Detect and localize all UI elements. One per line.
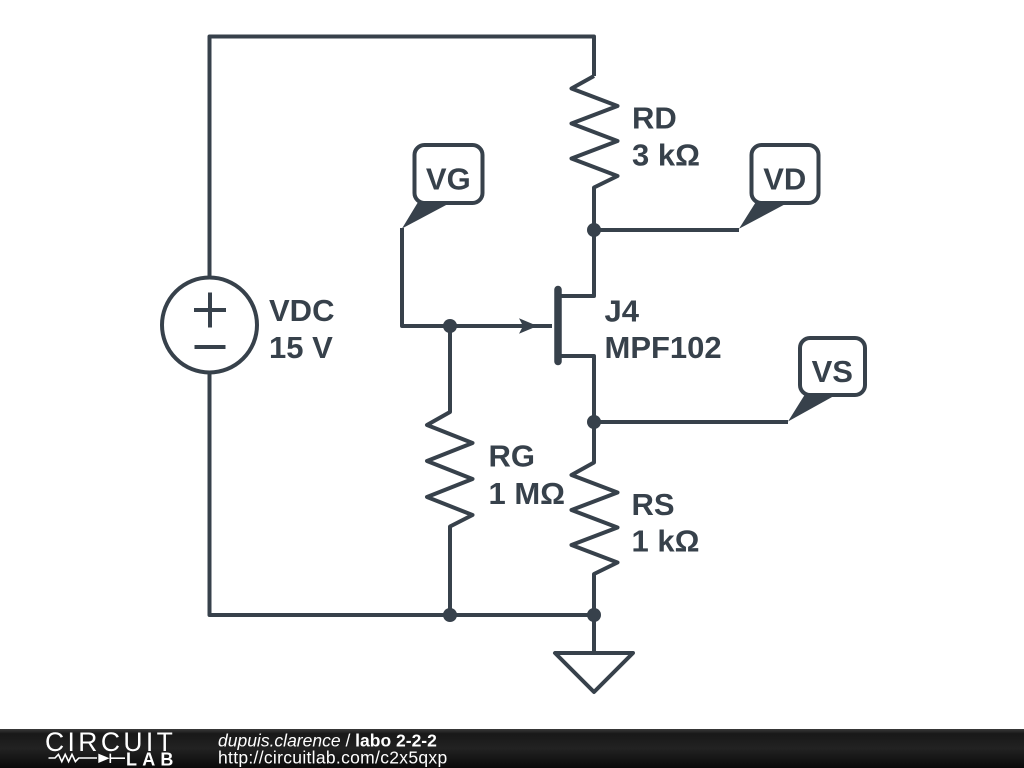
svg-text:1 kΩ: 1 kΩ bbox=[632, 524, 700, 559]
svg-text:VDC: VDC bbox=[269, 293, 334, 328]
svg-text:RG: RG bbox=[489, 439, 536, 474]
svg-text:1 MΩ: 1 MΩ bbox=[489, 476, 566, 511]
svg-text:3 kΩ: 3 kΩ bbox=[632, 138, 700, 173]
svg-text:RS: RS bbox=[632, 487, 675, 522]
svg-text:LAB: LAB bbox=[126, 750, 179, 768]
svg-text:15 V: 15 V bbox=[269, 330, 333, 365]
svg-text:J4: J4 bbox=[605, 294, 640, 329]
svg-text:MPF102: MPF102 bbox=[605, 330, 722, 365]
svg-text:http://circuitlab.com/c2x5qxp: http://circuitlab.com/c2x5qxp bbox=[218, 748, 448, 768]
svg-text:VG: VG bbox=[426, 162, 471, 197]
svg-text:VS: VS bbox=[812, 354, 853, 389]
svg-text:RD: RD bbox=[632, 101, 677, 136]
svg-text:VD: VD bbox=[763, 162, 806, 197]
